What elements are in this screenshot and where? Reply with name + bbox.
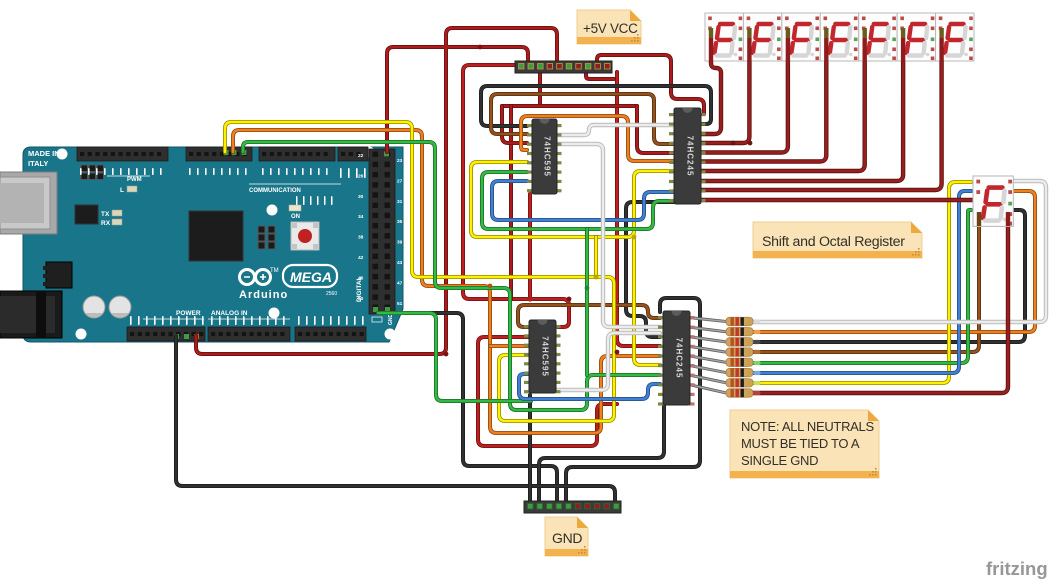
wire yellow upper 595 to 245 xyxy=(471,162,674,237)
svg-text:43: 43 xyxy=(397,260,403,266)
wire orange resistor2 to display xyxy=(753,191,1035,332)
svg-text:74HC595: 74HC595 xyxy=(541,336,550,377)
pin number labels top xyxy=(80,168,366,205)
wire dark red 245 to display 6 xyxy=(701,30,903,181)
wire white lower 595 to 245 xyxy=(556,333,660,390)
mounting hole xyxy=(76,329,87,340)
MEGA logo box xyxy=(283,265,337,287)
wire red vcc drop right xyxy=(586,72,614,79)
wire black upper 595-245 gnd xyxy=(481,86,711,126)
mounting hole xyxy=(221,147,232,158)
resistor R2 330ohm xyxy=(726,328,753,336)
svg-text:GND: GND xyxy=(552,530,582,546)
wire dark red 245 to display 3 xyxy=(701,30,788,153)
resistor R6 330ohm xyxy=(726,368,753,376)
pin number labels bottom xyxy=(130,316,364,325)
Arduino infinity logo xyxy=(240,268,279,285)
7-segment display DS5 xyxy=(859,13,897,61)
svg-text:+5V VCC: +5V VCC xyxy=(583,21,638,36)
svg-text:Shift and Octal Register: Shift and Octal Register xyxy=(762,234,905,250)
mounting hole xyxy=(269,308,280,319)
wire orange arduino to lower xyxy=(233,130,660,433)
junction dot xyxy=(527,296,532,301)
IC U1 74HC595 upper xyxy=(527,119,562,194)
right double pin header digital 22-53 xyxy=(369,149,395,314)
wire red serial cascade 595s xyxy=(528,194,532,299)
svg-text:TM: TM xyxy=(270,268,279,274)
resistor R1 330ohm xyxy=(726,317,753,325)
svg-text:POWER: POWER xyxy=(176,310,201,317)
pin number labels right header xyxy=(358,153,403,307)
wire yellow branch to lower 245 xyxy=(634,237,660,365)
top pin header B (pins 8-13) xyxy=(186,147,252,161)
wire yellow riser link xyxy=(594,237,598,277)
svg-text:2560: 2560 xyxy=(326,291,337,297)
junction dot xyxy=(443,44,448,49)
svg-text:30: 30 xyxy=(358,194,364,200)
wire red from header down to lower 245 xyxy=(617,72,660,346)
ON led label xyxy=(289,205,301,211)
wire red into upper 245 xyxy=(637,106,674,153)
wire red into upper 595 pin3 xyxy=(502,106,527,143)
wire red upper 595 to 245 xyxy=(502,104,637,108)
svg-text:L: L xyxy=(120,187,124,194)
svg-text:22: 22 xyxy=(358,153,364,159)
green wire attach pins xyxy=(224,150,229,155)
mounting hole xyxy=(385,329,396,340)
wire green arduino to lower xyxy=(243,142,660,410)
svg-text:42: 42 xyxy=(358,255,364,261)
7-segment display DS2 xyxy=(743,13,781,61)
svg-text:74HC595: 74HC595 xyxy=(543,136,552,177)
wire resistor R1 left lead xyxy=(691,318,726,322)
svg-text:47: 47 xyxy=(397,280,403,286)
svg-text:PWM: PWM xyxy=(127,177,142,183)
IC U4 74HC245 lower xyxy=(658,311,695,406)
wire dark red 245 to display 7 xyxy=(701,30,942,190)
wire resistor R5 left lead xyxy=(691,356,726,362)
wire white upper 595 to 245 A xyxy=(557,125,674,135)
wire blue resistor6 to display xyxy=(753,191,971,373)
wire dark red 245 to single display xyxy=(701,198,973,202)
Arduino Mega board xyxy=(0,147,403,343)
wire black gnd loop right xyxy=(566,298,700,501)
wire red header to upper 245 pin1 xyxy=(597,55,704,114)
note: GND xyxy=(545,517,588,556)
svg-text:TX: TX xyxy=(101,211,110,218)
svg-text:38: 38 xyxy=(358,235,364,241)
top pin header D (communication) xyxy=(338,147,368,161)
wire red +5V VIN to VCC header xyxy=(196,28,557,354)
svg-text:26: 26 xyxy=(358,173,364,179)
wire brown resistor4 to display xyxy=(753,222,979,352)
7-segment display DS7 xyxy=(936,13,974,61)
svg-text:34: 34 xyxy=(358,214,364,220)
wire resistor R2 left lead xyxy=(691,327,726,331)
GND pin header xyxy=(524,501,621,513)
top pin header C (pins 0-7) xyxy=(259,147,335,161)
+5V VCC pin header xyxy=(515,61,612,73)
svg-text:SINGLE GND: SINGLE GND xyxy=(741,453,818,468)
svg-text:74HC245: 74HC245 xyxy=(675,338,684,379)
7-segment display DS3 xyxy=(782,13,820,61)
7-segment display DS8 (single) xyxy=(973,176,1013,226)
mounting hole xyxy=(267,205,278,216)
wire resistor R8 left lead xyxy=(691,385,726,393)
mounting hole xyxy=(57,149,68,160)
barrel jack power connector xyxy=(0,291,62,338)
wire dark red 245 to display 1 xyxy=(701,30,721,134)
wire green resistor5 to display xyxy=(753,210,971,363)
wire green upper 595 to 245 xyxy=(482,172,674,229)
wire green arduino pin53 xyxy=(378,313,531,401)
svg-text:39: 39 xyxy=(397,240,403,246)
wire red vcc small drop xyxy=(538,72,542,106)
7-segment display DS6 xyxy=(897,13,935,61)
svg-text:74HC245: 74HC245 xyxy=(686,136,695,177)
svg-text:MADE IN: MADE IN xyxy=(28,149,60,158)
svg-text:51: 51 xyxy=(397,301,403,307)
wire dark red 245 to display 2 xyxy=(701,30,749,143)
resistor R3 330ohm xyxy=(726,338,753,346)
wire black resistor3 to display xyxy=(753,210,1025,342)
wire resistor R4 left lead xyxy=(691,347,726,353)
svg-text:46: 46 xyxy=(358,275,364,281)
note: Shift and Octal Register xyxy=(753,222,922,258)
reset button xyxy=(291,222,319,250)
wire resistor R3 left lead xyxy=(691,337,726,342)
svg-text:MEGA: MEGA xyxy=(290,269,332,285)
IC U3 74HC595 lower xyxy=(524,320,561,393)
wire red branch to Arduino pin22 xyxy=(387,47,528,152)
resistor R5 330ohm xyxy=(726,358,753,366)
wire yellow resistor7 to display xyxy=(753,182,971,383)
junction dots xyxy=(444,45,753,357)
svg-text:31: 31 xyxy=(397,199,403,205)
svg-text:ON: ON xyxy=(291,214,300,220)
svg-text:50: 50 xyxy=(358,296,364,302)
svg-text:MUST BE TIED TO A: MUST BE TIED TO A xyxy=(741,436,860,451)
resistor R4 330ohm xyxy=(726,348,753,356)
svg-text:GND: GND xyxy=(388,314,394,326)
small chip 16U2 xyxy=(75,205,98,224)
ICSP header 1 xyxy=(81,165,104,180)
ICSP header 2 xyxy=(258,226,275,249)
bottom pin header power xyxy=(127,327,205,341)
ATmega2560 chip xyxy=(189,211,243,261)
capacitor C1 xyxy=(83,296,105,318)
resistor R7 330ohm xyxy=(726,379,753,387)
svg-text:ITALY: ITALY xyxy=(28,159,48,168)
wire red rail left down xyxy=(463,65,569,327)
wire dark red resistor8 to display xyxy=(753,222,1008,393)
IC U2 74HC245 upper xyxy=(669,108,706,204)
svg-text:RX: RX xyxy=(101,220,111,227)
wire yellow arduino big hook xyxy=(225,122,614,421)
wire black arduino right GND down xyxy=(392,313,557,501)
USB connector xyxy=(0,172,57,234)
wire brown lower bus xyxy=(518,305,660,327)
top pin header A xyxy=(77,147,168,161)
wire dark red 245 to display 4 xyxy=(701,30,826,162)
wire white upper to lower 245 xyxy=(557,144,660,327)
wire blue upper 595 to 245 xyxy=(492,181,674,220)
7-segment display DS1 xyxy=(705,13,743,61)
svg-text:NOTE: ALL NEUTRALS: NOTE: ALL NEUTRALS xyxy=(741,419,874,434)
wire green riser link xyxy=(585,229,589,375)
note: +5V VCC xyxy=(577,10,641,44)
wire black gnd to lower 245 left xyxy=(539,404,664,501)
mounting hole xyxy=(364,147,375,158)
wire white resistor1 to display xyxy=(753,181,1046,322)
wire red lower loop xyxy=(478,337,617,446)
wire end caps at resistors xyxy=(754,319,761,395)
wire black mid vertical to lower 245 xyxy=(626,202,674,337)
wire red vcc rail to lower xyxy=(509,106,513,299)
svg-text:fritzing: fritzing xyxy=(986,558,1048,579)
wire black lower 595 gnd drop xyxy=(528,395,532,501)
wire orange upper 595 to 245 xyxy=(521,116,674,161)
bottom pin header analog 1 xyxy=(208,327,290,341)
bottom pin header analog 2 xyxy=(295,327,366,341)
svg-text:35: 35 xyxy=(397,219,403,225)
wire dark red 245 to display 5 xyxy=(701,30,865,171)
7-segment display DS4 xyxy=(820,13,858,61)
capacitor C2 xyxy=(109,296,131,318)
wire black arduino bottom GND xyxy=(176,336,615,501)
wire orange branch lower 595 xyxy=(490,344,529,348)
svg-text:27: 27 xyxy=(397,178,403,184)
svg-text:23: 23 xyxy=(397,158,403,164)
svg-text:Arduino: Arduino xyxy=(239,289,288,301)
note: NOTE ALL NEUTRALS xyxy=(730,410,879,478)
voltage regulator xyxy=(46,262,72,288)
resistor R8 330ohm xyxy=(726,389,753,397)
wire resistor R6 left lead xyxy=(691,366,726,373)
wire resistor R7 left lead xyxy=(691,375,726,382)
svg-text:ANALOG IN: ANALOG IN xyxy=(211,310,248,317)
wire end caps xyxy=(709,28,1010,226)
svg-text:COMMUNICATION: COMMUNICATION xyxy=(249,188,301,194)
wire brown upper bus xyxy=(491,94,674,144)
wire blue lower 595 to 245 xyxy=(519,374,660,399)
